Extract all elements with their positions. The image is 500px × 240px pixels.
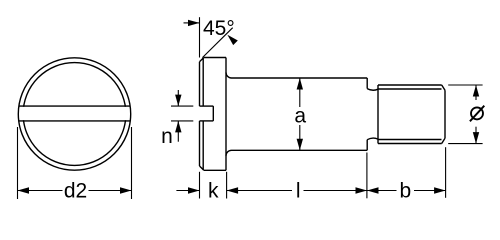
head top-left chamfer — [200, 58, 204, 62]
svg-text:k: k — [208, 180, 219, 203]
l arrow left — [227, 187, 239, 193]
diameter symbol — [471, 107, 483, 119]
head right face — [225, 58, 227, 171]
45deg callout extension line — [199, 17, 201, 57]
b dimension line — [367, 190, 397, 192]
a arrow bottom — [297, 139, 303, 151]
diameter extension line bottom — [448, 143, 482, 145]
svg-text:45°: 45° — [203, 17, 235, 40]
d2 extension line left — [17, 127, 19, 199]
diameter arrow top — [473, 85, 479, 97]
head top line — [204, 57, 226, 59]
thread root top line — [378, 88, 442, 90]
fillet head-shoulder top — [226, 73, 232, 79]
thread root bottom line — [378, 139, 442, 141]
head bottom-left chamfer — [200, 166, 204, 170]
head left face upper segment — [199, 62, 201, 106]
45deg pointer arrowhead — [227, 35, 237, 45]
d2 arrow left — [18, 187, 30, 193]
diameter arrow bottom — [473, 132, 479, 144]
d2 dimension line — [18, 190, 63, 192]
k left arrow — [176, 190, 199, 192]
thread major bottom line — [378, 143, 442, 145]
thread end chamfer top — [442, 85, 445, 90]
d2 arrow right — [120, 187, 132, 193]
l arrow right — [356, 187, 368, 193]
k extension line left — [199, 172, 201, 199]
slot notch top line (side view) — [200, 105, 214, 107]
45deg callout horizontal arrow — [184, 22, 200, 24]
slot notch depth line (side view) — [212, 106, 214, 121]
svg-text:a: a — [294, 105, 306, 128]
head left face lower segment — [199, 121, 201, 166]
head outer circle (front view) — [18, 58, 130, 170]
thread end face — [444, 90, 446, 138]
l/b extension line (shoulder end) — [366, 153, 368, 199]
slot lower line (front view) — [19, 120, 131, 122]
diameter extension line top — [448, 84, 482, 86]
a dimension line — [299, 78, 301, 107]
svg-text:l: l — [296, 180, 301, 203]
head bottom line — [204, 169, 226, 171]
k extension line right — [226, 172, 228, 199]
n extension line bottom — [171, 120, 193, 122]
diameter dimension line — [475, 85, 477, 100]
chamfer edge line upper segment — [202, 58, 204, 106]
undercut bottom curve — [367, 138, 378, 140]
n extension line top — [171, 105, 193, 107]
fillet head-shoulder bottom — [226, 150, 232, 156]
b extension line right (thread end) — [445, 147, 447, 198]
d2 extension line right — [131, 127, 133, 199]
undercut top curve — [367, 89, 378, 91]
thread left face — [377, 85, 379, 144]
shoulder end face — [366, 78, 368, 89]
shoulder bottom line — [232, 149, 368, 151]
head inner circle (front view) — [23, 63, 126, 166]
shoulder top line — [232, 77, 368, 79]
n bottom arrow — [177, 121, 179, 142]
svg-text:d2: d2 — [64, 180, 87, 203]
slot upper line (front view) — [19, 105, 131, 107]
b arrow left — [367, 187, 379, 193]
svg-text:n: n — [161, 125, 173, 148]
b arrow right — [434, 187, 446, 193]
n top arrow — [177, 90, 179, 106]
svg-text:b: b — [399, 180, 411, 203]
45deg leader line — [202, 28, 232, 58]
slot band mask (front view) — [21, 107, 128, 120]
thread end chamfer bottom — [442, 138, 445, 143]
head profile (side view) — [200, 58, 446, 171]
thread major top line — [378, 84, 442, 86]
l dimension line — [227, 190, 292, 192]
a arrow top — [297, 78, 303, 90]
slot notch bottom line (side view) — [200, 120, 214, 122]
chamfer edge line lower segment — [202, 121, 204, 170]
